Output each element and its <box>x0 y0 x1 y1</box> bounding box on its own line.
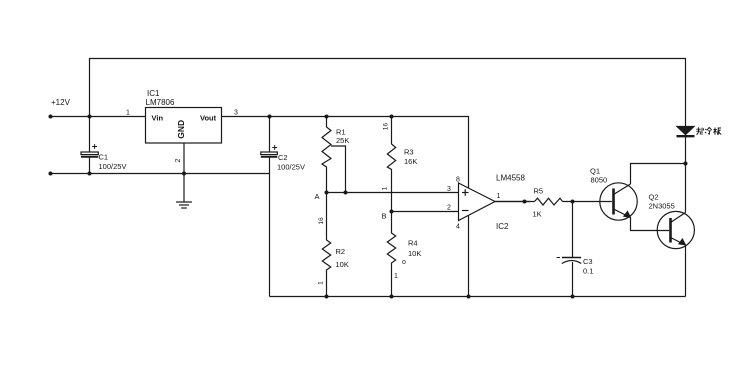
transistor Q2 <box>657 164 694 297</box>
svg-text:1: 1 <box>318 281 325 285</box>
svg-text:1: 1 <box>382 186 389 190</box>
junction +6V rail / R1 top <box>325 115 329 119</box>
junction +12V input left end <box>49 115 53 119</box>
node A junction R1/R2 <box>325 191 329 195</box>
junction op-amp output wire <box>523 200 527 204</box>
wire +12V rail <box>49 116 146 118</box>
transistor Q1 <box>600 164 686 231</box>
label cooling plate (hand-drawn CJK strokes) <box>696 127 721 135</box>
op-amp minus sign <box>462 210 469 212</box>
svg-text:2: 2 <box>447 205 451 212</box>
wire bottom ground rail <box>270 296 686 298</box>
junction R1 wiper tap on node A <box>344 191 348 195</box>
svg-text:16K: 16K <box>404 157 417 166</box>
junction +6V rail / R3 top <box>390 115 394 119</box>
svg-text:3: 3 <box>234 110 238 117</box>
resistor R2 <box>322 193 330 297</box>
junction +6V rail / C2 top <box>268 115 272 119</box>
junction gnd input left end <box>49 172 53 176</box>
svg-text:Vin: Vin <box>152 114 164 123</box>
wire top rail <box>90 59 686 127</box>
junction bottom rail / R4 <box>390 295 394 299</box>
svg-text:2: 2 <box>175 158 182 162</box>
svg-text:2N3055: 2N3055 <box>649 202 675 211</box>
capacitor C2 <box>261 117 278 297</box>
junction gnd rail / IC1 pin2 <box>182 172 186 176</box>
svg-text:Q2: Q2 <box>649 193 659 202</box>
resistor R3 <box>387 117 395 212</box>
wire IC1 gnd pin <box>183 143 185 202</box>
svg-text:A: A <box>315 192 320 201</box>
svg-text:C3: C3 <box>583 257 593 266</box>
svg-text:IC1: IC1 <box>147 89 160 98</box>
wire node A to op-amp <box>327 192 459 194</box>
svg-text:16: 16 <box>382 123 389 131</box>
svg-text:10K: 10K <box>336 260 349 269</box>
junction bottom rail / C3 bottom <box>571 295 575 299</box>
svg-text:1: 1 <box>394 273 398 280</box>
wire R5 to Q1 base <box>495 201 535 203</box>
junction gnd rail / C1 bottom <box>88 172 92 176</box>
svg-text:R2: R2 <box>336 247 346 256</box>
junction bottom rail / op-amp pin4 <box>467 295 471 299</box>
svg-text:1: 1 <box>497 193 501 200</box>
svg-text:100/25V: 100/25V <box>277 163 305 172</box>
resistor R1 <box>322 117 346 193</box>
diode / cooler load <box>677 127 695 164</box>
svg-text:100/25V: 100/25V <box>99 162 127 171</box>
svg-text:3: 3 <box>447 186 451 193</box>
svg-text:0.1: 0.1 <box>583 267 593 276</box>
svg-text:C1: C1 <box>99 153 109 162</box>
svg-text:R4: R4 <box>408 239 418 248</box>
junction +12V rail / C1 top <box>88 115 92 119</box>
capacitor C1 <box>81 117 98 174</box>
junction diode cathode / Q1 Q2 collectors <box>684 162 688 166</box>
wire op-amp output <box>495 201 530 203</box>
op-amp IC2 triangle <box>459 183 496 221</box>
IC1 box LM7806 <box>146 108 222 144</box>
svg-text:Q1: Q1 <box>590 167 600 176</box>
svg-text:Vout: Vout <box>200 114 217 123</box>
resistor R5 <box>535 198 563 205</box>
ground symbol <box>176 202 192 208</box>
svg-text:R3: R3 <box>404 148 414 157</box>
node B junction R3/R4 <box>390 210 394 214</box>
junction bottom rail / R2 <box>325 295 329 299</box>
svg-text:R5: R5 <box>534 187 544 196</box>
svg-text:10K: 10K <box>408 249 421 258</box>
svg-text:B: B <box>382 212 387 221</box>
wire IC1 output rail <box>222 117 469 189</box>
capacitor C3 <box>557 202 582 297</box>
wire lower-left ground rail <box>49 173 270 175</box>
svg-text:o: o <box>402 259 406 266</box>
junction R5 / C3 top <box>571 200 575 204</box>
svg-text:4: 4 <box>456 224 460 231</box>
svg-text:LM4558: LM4558 <box>496 174 525 183</box>
svg-text:IC2: IC2 <box>496 222 509 231</box>
svg-text:16: 16 <box>318 217 325 225</box>
svg-text:8050: 8050 <box>591 176 608 185</box>
wire node B to op-amp <box>392 211 459 213</box>
wire op-amp pin4 <box>468 215 470 296</box>
svg-text:+12V: +12V <box>51 98 71 107</box>
op-amp plus sign <box>462 189 469 196</box>
svg-text:C2: C2 <box>278 153 288 162</box>
svg-text:8: 8 <box>456 177 460 184</box>
resistor R4 <box>387 212 395 297</box>
svg-text:1K: 1K <box>533 210 542 219</box>
svg-text:25K: 25K <box>336 136 349 145</box>
svg-text:LM7806: LM7806 <box>146 98 175 107</box>
svg-text:1: 1 <box>126 110 130 117</box>
svg-text:GND: GND <box>176 120 186 139</box>
